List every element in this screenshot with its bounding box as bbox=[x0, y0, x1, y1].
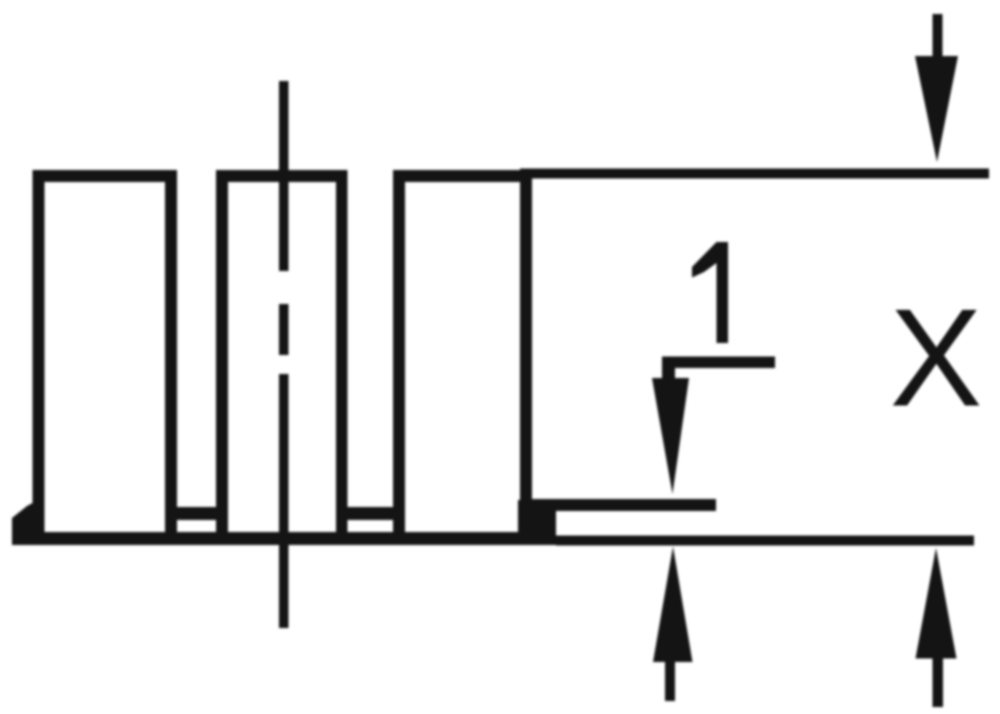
top reference line bbox=[520, 169, 989, 179]
leader line for label 1 bbox=[662, 357, 775, 369]
fin F3 outline bbox=[393, 170, 532, 532]
bottom-right dimension arrowhead (up) bbox=[916, 548, 957, 659]
svg-text:X: X bbox=[890, 281, 983, 436]
top dimension arrowhead (down) bbox=[915, 56, 958, 162]
centerline dash (top long) bbox=[279, 81, 289, 271]
centerline dash (middle short) bbox=[279, 304, 289, 355]
leader arrowhead (down) bbox=[652, 378, 689, 494]
fin F2 outline bbox=[216, 170, 348, 532]
centerline dash (bottom long) bbox=[279, 374, 289, 628]
base plate left foot step bbox=[12, 496, 45, 545]
label 1 bbox=[692, 242, 728, 343]
slot bridge bar between F2 and F3 bbox=[336, 507, 405, 520]
slot bridge bar between F1 and F2 bbox=[165, 507, 228, 520]
bottom reference line bbox=[556, 536, 974, 546]
bottom-left dimension arrow shaft bbox=[665, 660, 675, 701]
base plate bar bbox=[12, 532, 556, 545]
fin F1 outline bbox=[33, 170, 178, 532]
leader hook (vertical) bbox=[662, 357, 675, 383]
bottom-right dimension arrow shaft bbox=[933, 656, 944, 707]
base plate right step block bbox=[518, 500, 556, 545]
top dimension arrow shaft bbox=[933, 14, 943, 64]
step surface line (right of fin F3) bbox=[520, 499, 716, 511]
bottom-left dimension arrowhead (up) bbox=[653, 547, 693, 663]
